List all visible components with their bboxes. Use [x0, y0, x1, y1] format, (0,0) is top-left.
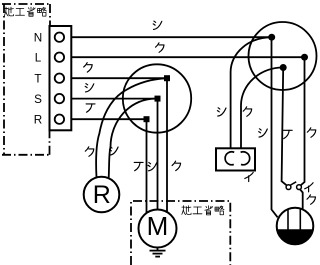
wire T to square 1 [59, 77, 167, 79]
connector square 2 [155, 96, 161, 102]
svg-text:N: N [34, 32, 42, 45]
label a on R wire [86, 104, 95, 112]
svg-text:M: M [147, 211, 169, 241]
wire lamp R left lead arc to square1 [96, 78, 167, 178]
wire dot C down to switch left contact [282, 68, 287, 186]
label ku at switch [307, 195, 316, 205]
label shi at round lamp lead [259, 129, 268, 137]
boundary dash-dot around omitted source section (top-left) [2, 4, 50, 155]
junction box (middle circle) [123, 64, 191, 132]
label i at switch [305, 183, 313, 192]
label shi on S wire [85, 84, 94, 92]
svg-text:T: T [34, 73, 41, 86]
label i below ceiling box [245, 172, 253, 181]
junction dot A [268, 34, 275, 41]
label a at motor lead 1 [134, 162, 143, 170]
label ku at lamp R left lead [85, 147, 94, 157]
label shi at lamp R right lead [110, 147, 119, 155]
terminal R [55, 115, 64, 124]
label shi at ceiling box lead [217, 108, 226, 116]
label ku at motor lead 3 [172, 161, 181, 171]
terminal T [55, 74, 64, 83]
terminal L [55, 53, 64, 62]
terminal block [50, 26, 72, 130]
wire ceiling lamp ku lead to dot C [241, 68, 283, 149]
connector square 1 [164, 75, 170, 81]
wire switch to round sheathing lamp [300, 189, 303, 209]
wire square3 down to motor [146, 119, 148, 213]
wire L to dot B [59, 56, 304, 58]
connector square 3 [144, 116, 150, 122]
label SEKOU-SHOURYAKU top-left [4, 7, 46, 16]
switch lever [290, 182, 296, 185]
junction dot B [301, 54, 308, 61]
label shi at motor lead 2 [148, 163, 157, 171]
ceiling rose contacts ( ) [225, 152, 234, 165]
svg-text:L: L [35, 52, 42, 65]
wire square2 down to motor [157, 99, 159, 210]
wire lamp R right lead arc to square2 [109, 99, 156, 178]
svg-text:R: R [34, 114, 42, 127]
lamp receptacle R [84, 177, 120, 213]
switch contact right [297, 185, 302, 190]
dash-dot box of omitted motor section (bottom) [131, 201, 230, 265]
switch contact left [286, 185, 291, 190]
label ku at switch lead [307, 128, 316, 138]
wire R to square 3 [59, 118, 146, 120]
motor M [139, 210, 177, 248]
round sheathing ceiling lamp [277, 208, 314, 245]
svg-text:S: S [34, 93, 42, 106]
junction dot C [280, 64, 287, 71]
svg-text:R: R [93, 181, 111, 209]
wire square1 down to motor [166, 78, 168, 212]
junction box (top-right circle) [249, 22, 317, 90]
wire dot A down to round sheathing lamp [272, 37, 278, 217]
label ku on L wire [156, 43, 165, 53]
ceiling rose box (kakugata) [216, 148, 255, 170]
terminal S [55, 94, 64, 103]
label a at switch lead [283, 130, 292, 138]
wire dot B down to switch right contact [301, 57, 305, 185]
terminal N [55, 33, 64, 42]
wire ceiling lamp shi lead to dot A [231, 37, 272, 148]
label ku on T wire [84, 63, 93, 73]
wire N to dot A [59, 36, 271, 38]
wire S to square 2 [59, 98, 157, 100]
motor ground symbol [157, 247, 159, 250]
label SEKOU-SHOURYAKU motor box [182, 206, 224, 215]
label ku at ceiling box lead [243, 107, 252, 117]
label shi on N wire [153, 21, 162, 29]
